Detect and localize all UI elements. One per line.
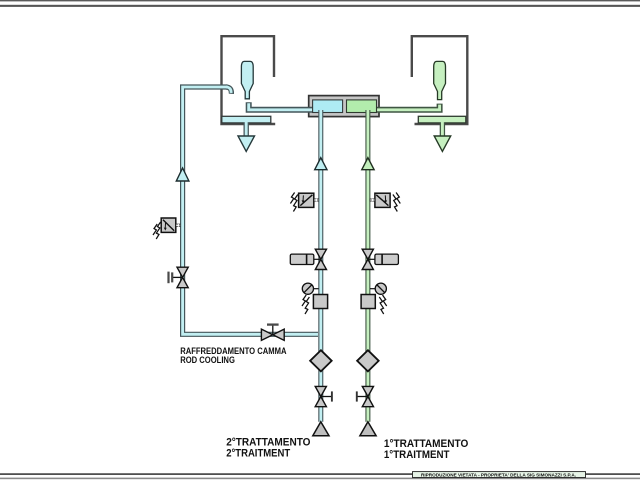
- check valve arrow (loop): [176, 168, 189, 181]
- rod cooling valve: [261, 325, 284, 341]
- drain valve (cyan line): [315, 386, 332, 406]
- top border line thin: [0, 0, 640, 1]
- left tank bottle: [241, 61, 253, 98]
- bottom border line dark: [0, 473, 640, 475]
- footer label box: [413, 472, 586, 479]
- left tank outlet pipe to manifold: [249, 102, 316, 110]
- filter diamond (cyan line): [310, 350, 332, 371]
- filter diamond (green line): [357, 350, 379, 371]
- right tank walls: [412, 36, 468, 124]
- bottom border line light: [0, 478, 640, 480]
- actuated valve (cyan line): [290, 249, 326, 269]
- right tank bottle: [434, 61, 446, 99]
- svg-text:ROD COOLING: ROD COOLING: [180, 355, 235, 366]
- wire: loop top + left riser + bottom run: [183, 87, 318, 334]
- manual valve (loop): [169, 267, 189, 288]
- manifold green chamber: [347, 100, 377, 113]
- outlet cone (cyan line): [313, 422, 329, 436]
- right tank drain arrow: [434, 136, 451, 151]
- right tank drain stub: [440, 123, 445, 136]
- svg-text:2°TRAITMENT: 2°TRAITMENT: [226, 447, 290, 459]
- outlet cone (green line): [360, 422, 376, 436]
- check valve arrow (green line): [362, 158, 374, 170]
- pressure regulator with gauge (cyan line): [302, 283, 328, 314]
- wire: nozzle bend into left tank: [226, 87, 231, 94]
- left tank drain arrow: [238, 136, 255, 151]
- right tank tray: [418, 116, 466, 123]
- pressure regulator with gauge (green line): [361, 283, 387, 314]
- manifold body: [309, 96, 379, 117]
- wire: green treatment line: [365, 110, 370, 422]
- left tank drain stub: [243, 123, 248, 136]
- actuated valve (green line): [362, 249, 398, 269]
- drain valve (green line): [357, 386, 374, 406]
- wire: cyan treatment line: [318, 110, 323, 422]
- solenoid valve (green line): [370, 193, 401, 212]
- right tank inlet pipe from manifold: [372, 104, 440, 110]
- solenoid valve (cyan line): [290, 193, 319, 212]
- svg-text:1°TRAITMENT: 1°TRAITMENT: [384, 449, 450, 461]
- top border line thick: [0, 5, 640, 7]
- left tank tray: [222, 116, 271, 123]
- left tank walls: [222, 36, 276, 124]
- svg-text:RIPRODUZIONE VIETATA - PROPRIE: RIPRODUZIONE VIETATA - PROPRIETA' DELLA …: [421, 473, 576, 479]
- check valve arrow (cyan line): [315, 158, 327, 170]
- solenoid valve (loop): [153, 218, 181, 239]
- manifold cyan chamber: [313, 100, 343, 113]
